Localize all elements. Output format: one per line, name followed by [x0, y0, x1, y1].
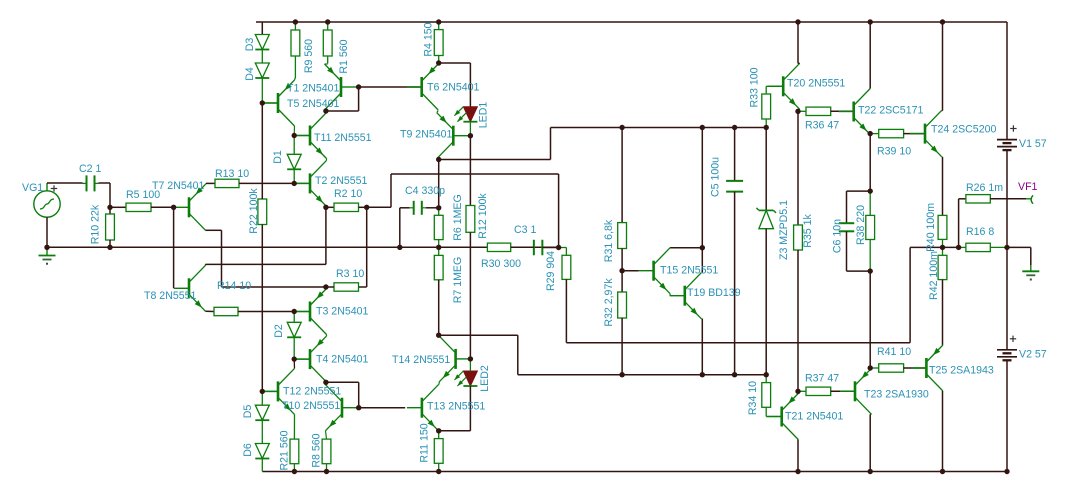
- svg-text:T24 2SC5200: T24 2SC5200: [931, 124, 996, 136]
- svg-text:R16 8: R16 8: [966, 226, 994, 238]
- svg-text:R35 1k: R35 1k: [802, 214, 814, 248]
- svg-text:VF1: VF1: [1018, 181, 1038, 193]
- svg-text:T22 2SC5171: T22 2SC5171: [858, 105, 923, 117]
- svg-text:R4 150: R4 150: [423, 22, 435, 56]
- svg-text:D3: D3: [244, 38, 256, 52]
- svg-text:T15 2N5551: T15 2N5551: [660, 265, 718, 277]
- svg-text:LED1: LED1: [478, 102, 490, 129]
- svg-text:R30 300: R30 300: [481, 258, 521, 270]
- svg-text:R29 904: R29 904: [545, 251, 557, 291]
- svg-text:R36 47: R36 47: [805, 120, 839, 132]
- svg-text:T13 2N5551: T13 2N5551: [427, 401, 485, 413]
- svg-text:R32 2,97k: R32 2,97k: [603, 278, 615, 327]
- svg-text:R13 10: R13 10: [215, 168, 249, 180]
- svg-text:V1 57: V1 57: [1019, 138, 1047, 150]
- svg-text:T4 2N5401: T4 2N5401: [316, 354, 369, 366]
- svg-text:C6 10n: C6 10n: [832, 219, 844, 253]
- svg-text:T7 2N5401: T7 2N5401: [152, 180, 205, 192]
- svg-text:T25 2SA1943: T25 2SA1943: [929, 365, 994, 377]
- svg-text:R10 22k: R10 22k: [90, 204, 102, 244]
- svg-text:R9 560: R9 560: [303, 39, 315, 73]
- svg-text:LED2: LED2: [479, 365, 491, 392]
- svg-text:R21 560: R21 560: [279, 430, 291, 470]
- svg-text:T11 2N5551: T11 2N5551: [314, 132, 372, 144]
- svg-text:T23 2SA1930: T23 2SA1930: [864, 389, 929, 401]
- svg-text:R38 220: R38 220: [855, 205, 867, 245]
- svg-text:D6: D6: [242, 443, 254, 457]
- svg-text:R2 10: R2 10: [334, 188, 362, 200]
- svg-text:T14 2N5551: T14 2N5551: [392, 354, 450, 366]
- svg-text:T2 2N5551: T2 2N5551: [315, 175, 368, 187]
- svg-text:T6 2N5401: T6 2N5401: [427, 82, 480, 94]
- svg-text:R31 6,8k: R31 6,8k: [603, 219, 615, 262]
- svg-text:T5 2N5401: T5 2N5401: [287, 98, 340, 110]
- svg-text:D1: D1: [272, 150, 284, 164]
- svg-text:R33 100: R33 100: [749, 67, 761, 107]
- svg-text:Z3 MZPD5.1: Z3 MZPD5.1: [778, 200, 790, 260]
- svg-text:C5 100u: C5 100u: [710, 157, 722, 197]
- svg-text:VG1: VG1: [22, 182, 43, 194]
- svg-text:T19 BD139: T19 BD139: [687, 287, 741, 299]
- svg-text:C3 1: C3 1: [514, 224, 536, 236]
- svg-text:T21 2N5401: T21 2N5401: [785, 411, 843, 423]
- svg-text:R34 10: R34 10: [747, 381, 759, 415]
- svg-text:R26 1m: R26 1m: [966, 182, 1003, 194]
- svg-text:T20 2N5551: T20 2N5551: [787, 78, 845, 90]
- svg-text:D2: D2: [273, 324, 285, 338]
- svg-text:R7 1MEG: R7 1MEG: [452, 257, 464, 304]
- svg-text:D5: D5: [242, 405, 254, 419]
- svg-text:R42 100m: R42 100m: [928, 251, 940, 300]
- svg-text:C4 330p: C4 330p: [405, 185, 445, 197]
- svg-text:R11 150: R11 150: [419, 423, 431, 462]
- svg-text:R1 560: R1 560: [338, 39, 350, 73]
- svg-text:R37 47: R37 47: [805, 373, 839, 385]
- svg-text:T8 2N5551: T8 2N5551: [144, 290, 197, 302]
- svg-text:D4: D4: [244, 67, 256, 81]
- svg-text:R40 100m: R40 100m: [925, 203, 937, 252]
- svg-text:C2 1: C2 1: [79, 163, 101, 175]
- svg-text:T12 2N5551: T12 2N5551: [283, 386, 341, 398]
- svg-text:R41 10: R41 10: [877, 346, 911, 358]
- svg-text:R22 100k: R22 100k: [248, 188, 260, 234]
- svg-text:R8 560: R8 560: [311, 433, 323, 467]
- svg-text:T3 2N5401: T3 2N5401: [316, 306, 369, 318]
- svg-text:R3 10: R3 10: [336, 268, 364, 280]
- svg-text:R12 100k: R12 100k: [477, 193, 489, 239]
- svg-text:T10 2N5551: T10 2N5551: [282, 400, 340, 412]
- svg-text:T9 2N5401: T9 2N5401: [400, 129, 453, 141]
- svg-text:T1 2N5401: T1 2N5401: [287, 83, 340, 95]
- svg-text:V2 57: V2 57: [1019, 349, 1047, 361]
- svg-text:R6 1MEG: R6 1MEG: [452, 194, 464, 241]
- svg-text:R39 10: R39 10: [877, 146, 911, 158]
- svg-text:R14 10: R14 10: [217, 280, 251, 292]
